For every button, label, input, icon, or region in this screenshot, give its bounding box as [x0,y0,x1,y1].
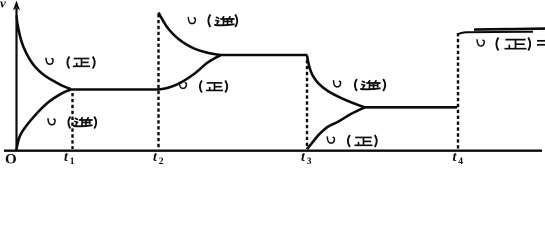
label v(ni) section 3 [334,79,386,91]
curve: forward speed v(zheng) decaying, section 0-t1 [17,16,71,90]
label v(zheng) section 2 [179,81,227,93]
axis label t2 [153,150,164,167]
curve: forward speed v(zheng) rising, section t3 [307,108,365,149]
curve: reverse speed v(ni) decaying, section t3 [307,56,365,108]
svg-text:3: 3 [307,157,312,166]
curve: forward speed v(zheng) rising, section t2 [159,55,221,89]
final forward speed step line (upper stroke) [474,29,545,30]
equals sign after final label [537,41,545,45]
label v(zheng) final section [477,38,530,51]
label v(zheng) section 3 [327,135,376,147]
flat speed line between section-3 convergence and t4 [364,106,457,109]
final forward speed step line (lower stroke) [459,32,533,34]
axis label t3 [301,150,312,167]
label v(zheng) section 1 [46,57,95,69]
axis label t4 [453,150,464,167]
dashed vertical line at t2 [157,14,159,149]
dashed vertical line at t1 [71,93,73,149]
svg-text:4: 4 [458,157,463,166]
label v(ni) section 1 [48,117,96,129]
svg-text:O: O [5,151,17,166]
svg-text:v: v [0,0,6,10]
svg-text:1: 1 [70,157,75,166]
y-axis with arrow [13,1,20,152]
flat speed line between section-2 convergence and t3 [220,54,308,57]
dashed vertical line at t4 [457,33,459,149]
label v(ni) section 2 [188,15,237,28]
axis label t1 [64,150,75,167]
svg-text:2: 2 [159,157,164,166]
flat speed line between t1 and t2 [70,88,159,91]
dashed vertical line at t3 [306,60,308,149]
curve: reverse speed v(ni) rising from origin, section 0-t1 [16,90,71,151]
curve: reverse speed v(ni) decaying, section t2 [159,13,221,56]
x-axis (time axis) [4,149,542,151]
